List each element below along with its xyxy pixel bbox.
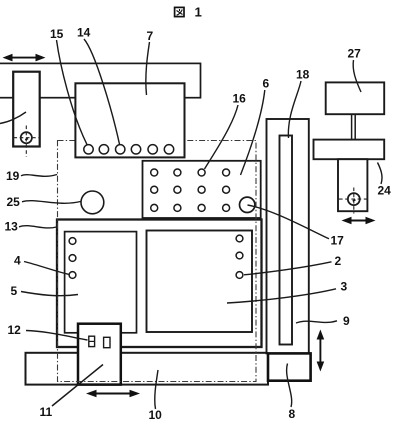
block 24 crosshair dashes: [339, 188, 367, 214]
svg-text:17: 17: [331, 234, 345, 248]
svg-text:15: 15: [50, 27, 64, 41]
leader 25: [22, 201, 81, 204]
svg-text:3: 3: [341, 280, 348, 294]
base bar 10: [26, 353, 269, 385]
title 図 1: [175, 7, 184, 16]
leader 11: [52, 365, 103, 407]
leader 24: [378, 163, 383, 185]
head unit 6 (dot matrix box): [143, 161, 261, 218]
shaft (double line): [352, 114, 356, 139]
leader 19: [21, 175, 57, 177]
svg-text:9: 9: [343, 314, 350, 328]
leader 14: [84, 39, 120, 144]
wire leader into slider from left edge: [0, 112, 26, 124]
leader 2: [244, 262, 332, 275]
matrix holes: [151, 169, 230, 211]
svg-text:4: 4: [14, 254, 21, 268]
left chamber 5: [65, 232, 137, 333]
large port 17: [240, 197, 255, 212]
svg-text:6: 6: [263, 77, 270, 91]
leader 16: [205, 105, 239, 169]
arrow under carriage 11: [86, 390, 140, 398]
leader 6: [241, 90, 265, 175]
slider pivot circle: [21, 132, 32, 143]
svg-text:12: 12: [8, 323, 22, 337]
svg-text:19: 19: [6, 169, 20, 183]
roller 25: [81, 191, 104, 214]
svg-text:24: 24: [378, 184, 392, 198]
head 7 nozzles: [84, 145, 174, 154]
foot 12a: [89, 336, 95, 346]
slider block on rail (left): [13, 72, 40, 147]
foot 12b: [104, 337, 110, 347]
column inner rail 18: [280, 136, 293, 345]
svg-text:25: 25: [7, 195, 21, 209]
slide block 24: [338, 159, 367, 211]
leader 4: [24, 262, 70, 275]
chamber 5 nozzle holes: [69, 238, 76, 245]
svg-text:10: 10: [149, 408, 163, 422]
print head 7: [75, 83, 184, 157]
svg-text:13: 13: [5, 220, 19, 234]
leader 27: [353, 60, 361, 92]
dashed enclosure 19: [58, 141, 257, 382]
svg-text:14: 14: [77, 26, 91, 40]
cross slide plate: [314, 140, 385, 160]
leader 15: [57, 40, 88, 145]
leader 18: [288, 81, 301, 138]
slider pivot crosshair dashes: [14, 126, 40, 158]
right chamber 3: [147, 231, 253, 333]
leader 7: [146, 42, 150, 95]
arrow beside column (vertical): [317, 330, 325, 372]
leader 13: [19, 226, 57, 228]
svg-text:11: 11: [40, 405, 53, 419]
frame box 13: [57, 220, 262, 348]
leader 12: [26, 331, 88, 341]
motor box 27: [326, 82, 385, 114]
arrow under block 24: [342, 217, 376, 225]
svg-text:1: 1: [195, 5, 202, 20]
svg-text:18: 18: [296, 68, 310, 82]
carriage 11: [78, 324, 121, 385]
rail band (top horizontal guide): [0, 63, 201, 97]
leader 10: [155, 370, 158, 409]
chamber 3 nozzle holes: [236, 235, 243, 242]
leader 17: [248, 205, 330, 239]
block 24 pivot circle: [348, 193, 360, 205]
svg-text:16: 16: [233, 92, 247, 106]
leader 5: [21, 292, 78, 296]
leader 8: [287, 364, 292, 408]
svg-text:27: 27: [348, 47, 362, 61]
leader 9: [296, 321, 337, 323]
leader 3: [227, 289, 336, 303]
svg-text:2: 2: [335, 254, 342, 268]
svg-text:8: 8: [289, 407, 296, 421]
base block 8: [268, 353, 311, 380]
svg-text:7: 7: [147, 29, 154, 43]
column outer 9: [267, 119, 309, 353]
arrow (left-right motion, top-left): [3, 54, 46, 62]
svg-text:5: 5: [11, 284, 18, 298]
